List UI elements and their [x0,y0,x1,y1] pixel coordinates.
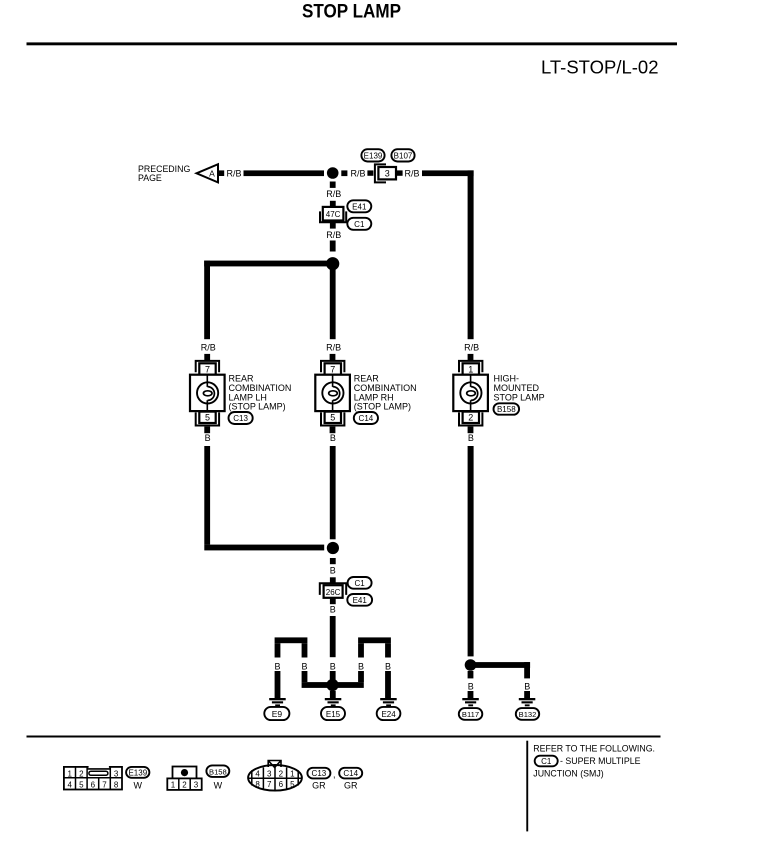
lamp HM text [494,374,545,403]
junction dot4 [326,679,338,691]
wire LH down [204,446,210,545]
svg-text:1: 1 [468,364,473,374]
svg-text:W: W [134,780,143,790]
connector label C14 (footer) [339,768,362,791]
ground E24 [377,698,401,720]
wire branch horizontal to LH column [204,261,328,267]
svg-text:B132: B132 [519,710,537,719]
preceding page label [138,164,190,183]
wire top horizontal right [422,170,474,176]
connector label E41 [347,200,371,212]
wire right horizontal from dot5 [471,662,531,668]
svg-text:B: B [330,566,336,576]
connector label E41 [347,594,372,606]
svg-text:E41: E41 [353,596,368,605]
svg-text:B: B [524,682,530,692]
wire stub below 26C [330,598,336,604]
svg-text:C13: C13 [312,769,327,778]
connector C1/E41 pin 26C [320,583,346,598]
svg-text:LT-STOP/L-02: LT-STOP/L-02 [541,57,659,78]
wire stub above 47C [330,201,336,207]
svg-text:GR: GR [344,781,358,791]
svg-text:7: 7 [102,780,107,789]
wire down to dot2 [330,241,336,252]
svg-text:B: B [330,433,336,443]
svg-text:- SUPER MULTIPLE: - SUPER MULTIPLE [560,756,641,766]
wire stub above 26C [330,577,336,583]
wire bottom horizontal through dot4 [302,682,364,688]
wire stub above B117 ground [468,691,474,699]
svg-text:2: 2 [468,413,473,423]
svg-text:B: B [330,605,336,615]
wire right leg upper [524,662,530,678]
ground E9 [264,698,289,720]
connector label E139 [361,149,384,161]
wire inner-right leg lower [358,671,364,682]
wire right leg lower [524,691,530,699]
lamp LH text [229,374,292,412]
wire stub dot4 to E15 ground [330,691,336,699]
footer separator [27,736,661,738]
svg-text:(STOP LAMP): (STOP LAMP) [354,402,411,412]
svg-text:B107: B107 [394,151,413,160]
wire outer-right leg upper [385,643,391,657]
svg-text:7: 7 [267,780,272,789]
svg-text:5: 5 [79,780,84,789]
connector label B107 [391,149,414,161]
svg-text:B117: B117 [462,710,479,719]
connector label C14 [354,412,378,424]
svg-text:REFER TO THE FOLLOWING.: REFER TO THE FOLLOWING. [533,743,655,753]
wire down to dot4 upper [330,616,336,657]
svg-text:R/B: R/B [326,230,341,240]
svg-text:47C: 47C [326,210,341,219]
svg-text:E24: E24 [381,710,396,719]
title rule [27,42,678,45]
svg-text:C1: C1 [354,579,365,588]
svg-text:1: 1 [171,781,176,790]
wire label B x2 [468,682,531,692]
svg-text:7: 7 [205,364,210,374]
connector E139/B107 pin 3 [367,164,402,182]
connector label B158 (footer) [206,765,229,790]
footer refer text [533,743,655,778]
svg-text:5: 5 [290,780,295,789]
connector label C1 (footer) [535,756,558,767]
wire down to dot4 lower [330,671,336,682]
wire stub below dot3 [330,558,336,564]
wire stub above RH lamp [330,354,336,361]
wire outer-left leg lower [275,671,281,699]
wire stub right of dot1 [341,170,347,176]
wire top-right bar [358,637,391,643]
svg-text:2: 2 [79,769,84,778]
svg-text:GR: GR [312,781,326,791]
svg-text:8: 8 [114,780,119,789]
svg-text:W: W [214,780,223,790]
svg-text:(STOP LAMP): (STOP LAMP) [229,402,286,412]
svg-text:C1: C1 [541,757,552,766]
junction dot5 [465,659,477,671]
wire LH vertical [204,261,210,340]
svg-text:B: B [468,433,474,443]
svg-text:,: , [333,770,336,780]
wire top-left bar [275,637,308,643]
connector pinout E139 [64,765,122,789]
wire stub below 47C [330,223,336,229]
wire right vertical to high-mounted lamp [468,170,474,339]
svg-text:5: 5 [330,413,335,423]
svg-text:E139: E139 [364,151,383,160]
connector pinout C13/C14 [248,761,302,791]
svg-text:6: 6 [91,780,96,789]
ground B117 [459,698,483,720]
wire stub below dot5 [468,671,474,678]
wire inner-right leg upper [358,643,364,657]
svg-text:STOP LAMP: STOP LAMP [302,1,401,23]
wire top horizontal left [244,170,325,176]
svg-text:1: 1 [67,769,72,778]
connector C1/E41 pin 47C [320,207,346,222]
junction dot1 [327,167,339,179]
high-mounted stop lamp B158 [453,361,488,433]
svg-text:B158: B158 [497,405,516,414]
svg-text:R/B: R/B [227,169,242,179]
svg-text:8: 8 [255,780,260,789]
svg-text:B158: B158 [209,767,227,776]
svg-text:B: B [468,682,474,692]
svg-text:4: 4 [255,769,260,778]
wire RH down to dot3 [330,446,336,539]
svg-text:R/B: R/B [201,342,216,352]
svg-text:B: B [385,661,391,671]
svg-text:4: 4 [67,780,72,789]
connector label B158 [494,403,520,414]
svg-text:B: B [358,661,364,671]
svg-text:3: 3 [114,769,119,778]
ground B132 [516,698,539,720]
connector label C1 [347,218,371,230]
svg-text:R/B: R/B [326,342,341,352]
junction dot3 [327,542,339,554]
rear combination lamp RH C14 [315,361,350,433]
svg-text:C1: C1 [354,220,365,229]
wire stub above LH lamp [204,354,210,361]
svg-text:2: 2 [182,781,187,790]
svg-text:JUNCTION (SMJ): JUNCTION (SMJ) [533,769,603,779]
svg-text:R/B: R/B [326,189,341,199]
connector label E139 (footer) [126,767,149,790]
svg-text:B: B [205,433,211,443]
lamp RH text [354,374,417,412]
svg-text:PAGE: PAGE [138,173,162,183]
svg-text:5: 5 [205,413,210,423]
connector label C1 [348,577,372,589]
svg-text:3: 3 [385,169,390,179]
svg-text:C14: C14 [359,414,374,423]
connector pinout B158 [167,767,201,790]
wire HM down to dot5 [468,446,474,656]
svg-text:R/B: R/B [405,168,420,178]
svg-text:R/B: R/B [351,169,366,179]
footer divider vertical [526,741,528,832]
svg-text:B: B [274,661,280,671]
svg-text:E41: E41 [352,202,367,211]
wire RH vertical [330,268,336,339]
svg-text:E15: E15 [326,710,341,719]
svg-text:3: 3 [194,781,199,790]
svg-text:B: B [301,661,307,671]
connector label C13 [229,412,253,424]
svg-text:1: 1 [290,769,295,778]
svg-text:C14: C14 [343,769,358,778]
rear combination lamp LH C13 [190,361,225,433]
wire inner-left leg upper [302,643,308,657]
wire stub above high-mounted lamp [468,354,474,361]
wire inner-left leg lower [302,671,308,682]
off-page arrow A [197,164,225,182]
wire outer-right leg lower [385,671,391,699]
svg-text:A: A [209,169,215,179]
svg-text:C13: C13 [233,414,248,423]
svg-text:7: 7 [330,364,335,374]
svg-text:R/B: R/B [464,342,479,352]
wire label B x5 [274,661,391,671]
svg-text:STOP LAMP: STOP LAMP [494,392,545,402]
svg-text:E139: E139 [128,768,147,777]
wire below dot1 [330,182,336,188]
wire bottom horizontal LH to dot3 [204,545,324,551]
svg-text:B: B [330,661,336,671]
svg-text:E9: E9 [272,709,283,719]
connector label C13 (footer) [307,768,330,791]
svg-text:26C: 26C [326,588,341,597]
svg-text:2: 2 [279,769,284,778]
svg-text:6: 6 [279,780,284,789]
svg-text:3: 3 [267,769,272,778]
junction dot2 [326,257,339,270]
wire outer-left leg upper [275,643,281,657]
ground E15 [321,698,345,720]
